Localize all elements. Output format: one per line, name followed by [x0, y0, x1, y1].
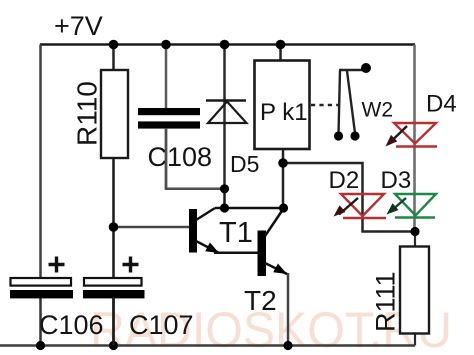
svg-text:T1: T1 [219, 217, 253, 249]
svg-text:T2: T2 [244, 285, 277, 316]
svg-text:C106: C106 [39, 310, 104, 340]
svg-text:W2: W2 [362, 99, 394, 122]
svg-text:D4: D4 [426, 91, 457, 118]
svg-text:C107: C107 [129, 310, 194, 340]
svg-text:R111: R111 [371, 271, 401, 332]
svg-text:+7V: +7V [54, 11, 103, 41]
svg-text:D3: D3 [381, 167, 412, 194]
svg-text:P k1: P k1 [260, 99, 308, 126]
svg-text:D5: D5 [230, 151, 259, 177]
svg-text:R110: R110 [72, 81, 103, 146]
svg-text:D2: D2 [329, 167, 360, 194]
svg-text:C108: C108 [148, 142, 213, 172]
